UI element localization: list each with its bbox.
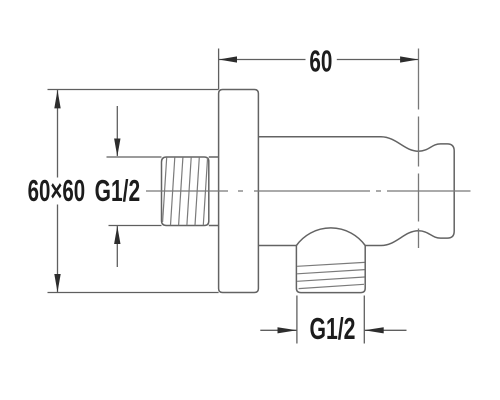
extension line top left (flange top): [48, 89, 219, 91]
inlet shank top edge: [209, 156, 219, 158]
body bottom edge left of outlet: [258, 245, 296, 247]
body outline with holder neck and end cap: [258, 137, 454, 246]
inlet shank bottom edge: [209, 225, 219, 227]
outlet dome: [296, 228, 365, 246]
arrow right to outlet left edge: [278, 327, 297, 333]
outlet threaded body G1/2: [296, 246, 365, 293]
arrow down of 60x60: [54, 274, 60, 292]
extension line outlet right: [363, 296, 365, 344]
inlet thread hatch lines: [163, 157, 208, 225]
dimension line G1/2 inlet (vertical): [116, 106, 118, 156]
extension line bottom left (flange bottom): [48, 292, 219, 294]
arrow down to inlet top: [114, 139, 120, 157]
arrow left to outlet right edge: [364, 327, 383, 333]
dimension line G1/2 outlet: [260, 329, 297, 331]
arrow up of 60x60: [54, 90, 60, 108]
svg-text:60×60: 60×60: [28, 173, 86, 208]
extension line above flange left edge: [218, 49, 220, 90]
extension tick at inlet bottom: [109, 225, 162, 227]
svg-text:G1/2: G1/2: [309, 311, 355, 346]
horizontal centerline: [146, 190, 471, 192]
extension tick at inlet top: [107, 156, 162, 158]
arrow right of 60: [400, 56, 418, 62]
svg-text:G1/2: G1/2: [95, 173, 141, 208]
wall flange (side view slab): [219, 90, 259, 293]
arrow left of 60: [219, 56, 237, 62]
outlet thread hatch lines: [297, 262, 364, 288]
dimension line 60 (top): [219, 59, 306, 61]
vertical centerline / extension at holder center: [418, 49, 420, 249]
svg-text:60: 60: [309, 44, 332, 79]
inlet nipple G1/2 threaded outline: [162, 157, 209, 226]
extension line outlet left: [296, 296, 298, 344]
dimension line 60x60 (left, vertical): [57, 90, 59, 178]
arrow up to inlet bottom: [114, 226, 120, 244]
